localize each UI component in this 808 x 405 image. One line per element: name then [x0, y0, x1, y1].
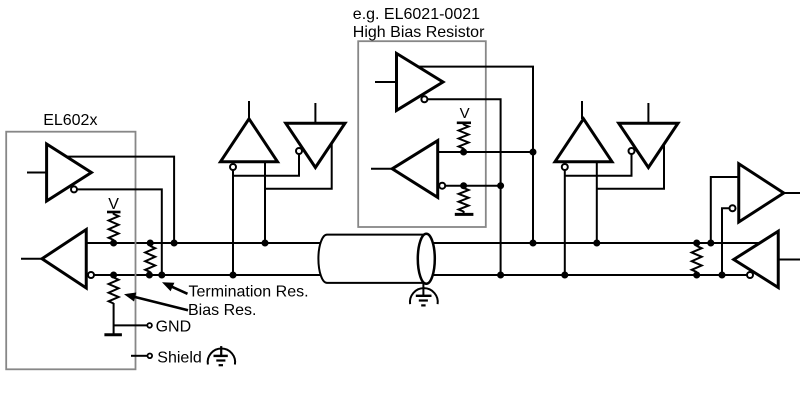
wire U5 inverted input from line B: [722, 208, 730, 275]
wire U3 input: [375, 81, 397, 83]
inverter bubble U6 input: [747, 272, 753, 278]
wire bus line A (upper): [86, 242, 760, 244]
wire U1 inverted output to line B: [77, 189, 162, 275]
wire U3 output to line A: [418, 67, 533, 243]
svg-text:Shield: Shield: [157, 349, 201, 366]
resistor bias lower (line B to GND): [109, 278, 119, 304]
node station1/B: [230, 272, 237, 279]
wire station1 to line A: [264, 162, 266, 243]
receiver station2 up: [555, 119, 612, 162]
node term2/A: [693, 240, 700, 247]
receiver U6 (right end receive buffer): [734, 231, 779, 287]
inverter bubble U3 output: [421, 96, 427, 102]
driver U5 (right end transmit buffer): [739, 164, 784, 222]
wire station2 down stub: [647, 103, 649, 123]
node topbox/B: [497, 272, 504, 279]
wire Shield terminal: [131, 355, 147, 357]
arrow to termination resistor: [169, 285, 188, 293]
wire U1 output to line A: [66, 157, 174, 243]
high bias resistor box outline: [358, 41, 486, 227]
node station1/A: [262, 240, 269, 247]
svg-text:EL602x: EL602x: [43, 112, 97, 129]
cable shield cylinder body: [318, 235, 426, 283]
receiver station1 up: [221, 119, 278, 162]
wire U3 inverted output to line B: [427, 99, 500, 275]
earth ground symbol (cable shield): [410, 288, 438, 305]
wire U4 output: [371, 168, 392, 170]
junction dots right: [693, 240, 725, 279]
node term2/B: [693, 272, 700, 279]
driver station1 down: [286, 123, 345, 167]
inverter bubble station2 driver: [629, 148, 635, 154]
resistor high bias lower (to ground rail): [459, 188, 469, 212]
node station2/B: [561, 272, 568, 279]
svg-text:Bias Res.: Bias Res.: [188, 302, 256, 319]
svg-text:V: V: [460, 105, 470, 122]
ground rail bar (top box): [455, 213, 474, 216]
driver U1 (left box transmit buffer): [47, 144, 92, 201]
wire bus line B (lower): [94, 274, 747, 276]
wire GND terminal: [114, 324, 147, 326]
wire station1 driver inverted output: [233, 154, 299, 176]
wire U6 output: [778, 259, 800, 261]
resistor termination right (line A to line B): [692, 246, 702, 272]
node receive/A-drop: [530, 149, 537, 156]
svg-text:Termination Res.: Termination Res.: [189, 283, 309, 300]
resistor high bias upper (V to receive line): [459, 125, 469, 149]
inverter bubble station2 receiver: [562, 164, 568, 170]
node invert/B-drop: [497, 182, 504, 189]
node topbox/A: [530, 240, 537, 247]
wire station1 inverted to line B: [232, 170, 234, 275]
wire U5 input from line A: [711, 177, 739, 243]
wire receiver input node: [438, 151, 533, 153]
inverter bubble station1 driver: [296, 148, 302, 154]
wire station1 driver output: [265, 143, 332, 189]
wire station2 driver inverted output: [565, 154, 632, 176]
wire cable shield to earth: [422, 284, 424, 296]
wire station2 inverted to line B: [564, 170, 566, 275]
node V-bias/receive: [460, 149, 467, 156]
wire station2 driver output: [597, 144, 664, 189]
node station2/A: [593, 240, 600, 247]
resistor termination R (line A to line B): [145, 246, 155, 272]
earth ground symbol (shield): [208, 346, 235, 365]
arrow to bias resistor: [133, 297, 188, 311]
node U5/A: [707, 240, 714, 247]
node driver/A: [171, 240, 178, 247]
wire U2 output: [21, 258, 42, 260]
node driver/B: [158, 272, 165, 279]
inverter bubble U4 input: [439, 183, 445, 189]
EL602x terminal box outline: [6, 132, 135, 370]
node term/A: [147, 240, 154, 247]
cable shield cylinder end ellipse: [418, 234, 435, 284]
driver station2 down: [619, 123, 678, 167]
svg-text:e.g. EL6021-0021: e.g. EL6021-0021: [353, 6, 480, 23]
node low-bias/invert: [460, 182, 467, 189]
junction dots top box: [460, 149, 536, 279]
junction dots left box: [110, 240, 178, 279]
svg-text:High Bias Resistor: High Bias Resistor: [353, 24, 485, 41]
wire station1 down stub: [314, 103, 316, 123]
supply rail bar V (top box): [457, 122, 471, 125]
svg-text:GND: GND: [156, 318, 192, 335]
node bias/B: [110, 272, 117, 279]
inverter bubble U5 input: [730, 205, 736, 211]
wire U5 output: [784, 192, 800, 194]
supply rail bar V: [107, 211, 121, 214]
wire station2 up stub: [581, 101, 583, 119]
node U5/B: [719, 272, 726, 279]
svg-text:V: V: [108, 196, 119, 213]
resistor bias upper (V to line A): [109, 214, 119, 240]
wire station2 to line A: [596, 162, 598, 243]
inverter bubble U2 input: [88, 272, 94, 278]
ground rail bar: [104, 333, 122, 336]
inverter bubble station1 receiver: [230, 164, 236, 170]
receiver U2 (left box receive buffer): [42, 230, 86, 289]
wire U1 input: [27, 172, 47, 174]
terminal circle Shield: [148, 354, 153, 359]
wire station1 up stub: [248, 101, 250, 119]
node term/B: [146, 272, 153, 279]
driver U3 (top box transmit buffer): [397, 53, 444, 110]
receiver U4 (top box receive buffer): [392, 141, 438, 198]
wire U4 inverted input node: [445, 185, 500, 187]
node bias/A: [110, 240, 117, 247]
inverter bubble U1 output: [71, 186, 77, 192]
terminal circle GND: [147, 323, 152, 328]
